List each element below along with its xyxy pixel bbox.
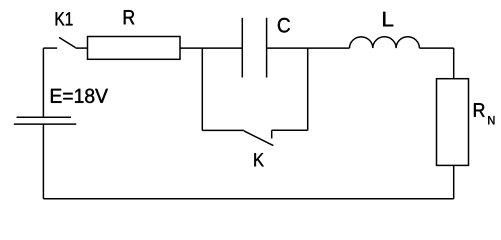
capacitor C right plate [266,18,268,78]
label K1 [56,12,73,25]
label E=18V [51,89,108,103]
wire: K branch left vertical [201,48,203,130]
wire: K branch bottom right horizontal [272,129,308,131]
label RN-R [474,103,485,117]
switch K right contact stub [271,130,273,138]
label C [278,18,290,33]
capacitor C left plate [241,18,243,78]
wire: K branch bottom left horizontal [202,129,244,131]
battery E top plate [17,116,72,118]
label K [254,153,263,166]
wire: left vertical upper (battery to switch K1) [42,48,44,117]
wire: right vertical below RN [453,165,455,198]
wire: K1 to resistor R [76,47,88,49]
wire: C to inductor L [267,47,350,49]
battery E bottom plate [14,123,77,125]
label R [124,10,134,24]
resistor R [88,37,181,60]
wire: K branch right vertical [307,48,309,130]
wire: bottom rail [43,198,453,200]
inductor L [350,37,420,48]
wire: L to right corner [419,47,453,49]
wire: left vertical lower (battery to bottom rail) [42,124,44,199]
switch K1 left contact wire [43,47,57,49]
switch K blade [244,131,273,146]
wire: R to capacitor C [180,47,242,49]
resistor RN [437,79,469,166]
switch K1 blade [59,37,76,47]
label L [383,12,393,26]
wire: right vertical above RN [453,48,455,79]
label RN-N [488,116,494,124]
